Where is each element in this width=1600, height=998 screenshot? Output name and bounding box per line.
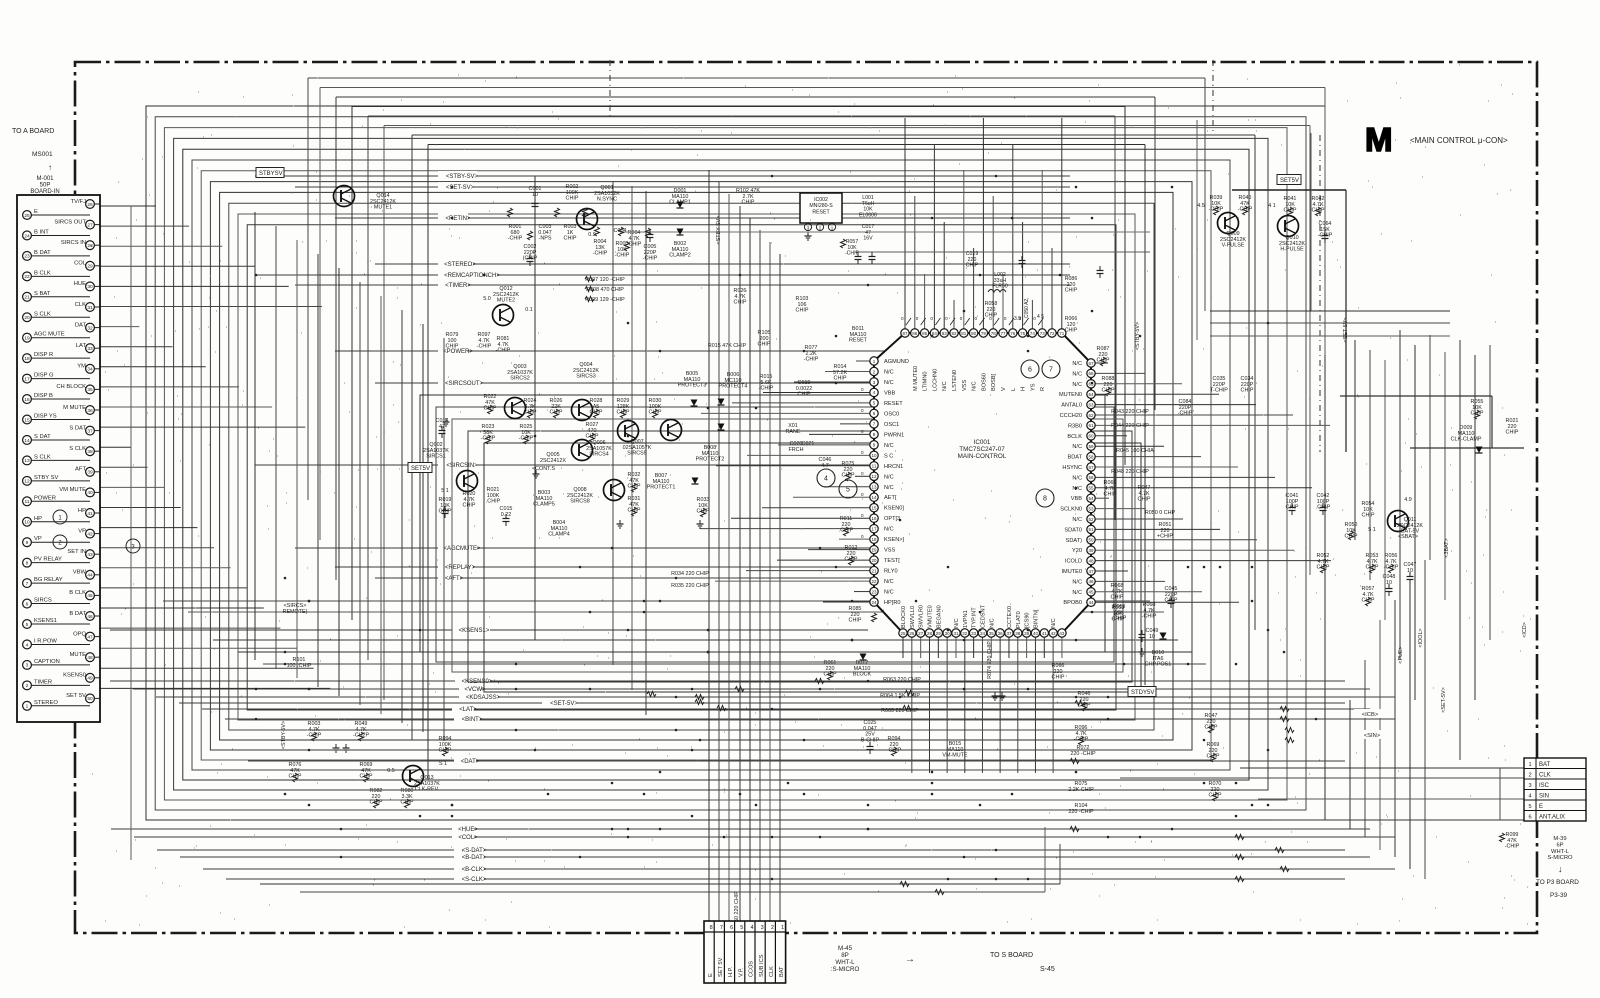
svg-text:12: 12	[871, 474, 877, 479]
svg-text:R035 220 CHIP: R035 220 CHIP	[671, 583, 709, 589]
svg-text:83: 83	[942, 331, 948, 336]
svg-text:R063 220 CHIP: R063 220 CHIP	[883, 677, 921, 683]
svg-text:1VPN1: 1VPN1	[963, 610, 969, 628]
svg-text:<CONT.S: <CONT.S	[532, 466, 555, 472]
svg-text:29: 29	[87, 264, 93, 270]
svg-text:74: 74	[1030, 331, 1036, 336]
svg-text:CLK-CLAMP: CLK-CLAMP	[1451, 437, 1482, 443]
svg-text:30: 30	[945, 631, 951, 636]
svg-text:DISP G: DISP G	[34, 373, 54, 379]
svg-text:VMUTE0: VMUTE0	[927, 605, 933, 628]
svg-text:87: 87	[902, 331, 908, 336]
svg-text:MUTE1: MUTE1	[374, 205, 392, 211]
svg-text:-CHIP: -CHIP	[804, 357, 819, 363]
svg-text:56: 56	[1088, 475, 1094, 480]
svg-text:KSEN0]: KSEN0]	[884, 506, 904, 512]
svg-text:EL0606: EL0606	[859, 212, 877, 218]
svg-text:CCTEX0: CCTEX0	[1007, 606, 1013, 628]
svg-text:R034 220 CHIP: R034 220 CHIP	[671, 571, 709, 577]
svg-text:PROTECT3: PROTECT3	[678, 383, 707, 389]
svg-text:4.7: 4.7	[821, 463, 829, 469]
svg-text:E: E	[34, 209, 38, 215]
svg-text:ANTAL0: ANTAL0	[1061, 403, 1082, 409]
svg-text:R: R	[1040, 387, 1046, 391]
svg-text:<AGCMUTE>: <AGCMUTE>	[443, 546, 481, 552]
svg-text:CHIP: CHIP	[1471, 411, 1484, 417]
svg-text:↓: ↓	[1558, 864, 1563, 874]
svg-text:CLAMP4: CLAMP4	[548, 532, 570, 538]
svg-text:N/C: N/C	[884, 590, 894, 596]
svg-text:15: 15	[24, 417, 30, 423]
svg-text:CEDSNT: CEDSNT	[980, 604, 986, 628]
svg-text:S DAT: S DAT	[69, 425, 86, 431]
svg-text:→: →	[905, 954, 915, 965]
svg-text:5 1: 5 1	[1368, 527, 1376, 533]
svg-text:N/C: N/C	[1072, 361, 1082, 367]
svg-text:-CHIP: -CHIP	[1238, 207, 1253, 213]
svg-text:L: L	[1011, 388, 1017, 391]
svg-text:VM-MUTE: VM-MUTE	[942, 753, 968, 759]
svg-text:41: 41	[87, 511, 93, 517]
svg-text:5.0: 5.0	[483, 296, 491, 302]
svg-text:<SBAT>: <SBAT>	[1398, 534, 1418, 540]
svg-text:KSENS0: KSENS0	[63, 673, 86, 679]
svg-text:M MUTE: M MUTE	[63, 405, 86, 411]
svg-text:CHIP: CHIP	[370, 800, 383, 806]
svg-text:CHIP: CHIP	[289, 774, 302, 780]
svg-text:C050 A2,: C050 A2,	[1024, 297, 1030, 318]
svg-text:<COL>: <COL>	[458, 835, 478, 841]
svg-text:<POWER>: <POWER>	[443, 349, 473, 355]
svg-text:CCCH20: CCCH20	[1060, 413, 1082, 419]
svg-text:CHIP: CHIP	[1241, 388, 1254, 394]
svg-text:BAT: BAT	[779, 966, 785, 977]
svg-text:CHIP: CHIP	[796, 308, 809, 314]
svg-text:50: 50	[87, 696, 93, 702]
svg-text:BPOB0: BPOB0	[1063, 600, 1082, 606]
svg-text:P3-39: P3-39	[1550, 892, 1567, 899]
svg-text:18: 18	[871, 537, 877, 542]
svg-text:CHIP: CHIP	[1345, 534, 1358, 540]
svg-text:E: E	[708, 973, 714, 977]
svg-text:15: 15	[871, 506, 877, 511]
svg-text:22: 22	[24, 274, 30, 280]
svg-text:<ICD>: <ICD>	[1522, 622, 1528, 638]
svg-text:6P: 6P	[1556, 842, 1563, 848]
svg-text:<STBY-SV>: <STBY-SV>	[446, 174, 479, 180]
svg-text:BOSB[: BOSB[	[991, 373, 997, 391]
svg-text:H: H	[1021, 387, 1027, 391]
svg-text:62: 62	[1088, 413, 1094, 418]
svg-text:WHT-L: WHT-L	[1551, 849, 1570, 855]
svg-text:41: 41	[1042, 631, 1048, 636]
svg-text:↑: ↑	[48, 163, 52, 172]
svg-text:KSENS1: KSENS1	[34, 618, 57, 624]
svg-text:S C: S C	[884, 453, 893, 459]
svg-text:VSS: VSS	[884, 548, 895, 554]
svg-text:77: 77	[1000, 331, 1006, 336]
svg-text:81: 81	[961, 331, 967, 336]
svg-text:SET5V: SET5V	[411, 466, 430, 472]
svg-text:1: 1	[1528, 762, 1531, 768]
svg-text:CHIP: CHIP	[484, 406, 497, 412]
svg-text:CHIP: CHIP	[1209, 793, 1222, 799]
svg-text:I R.POW: I R.POW	[34, 638, 57, 644]
svg-text:MUTE: MUTE	[70, 652, 87, 658]
svg-text:AGC MUTE: AGC MUTE	[34, 332, 65, 338]
svg-text:BOARD-IN: BOARD-IN	[30, 189, 59, 195]
svg-text:<LAT>: <LAT>	[459, 707, 477, 713]
svg-text:M: M	[1365, 121, 1393, 158]
svg-text:SIRCS4: SIRCS4	[589, 452, 608, 458]
svg-text:CHIP: CHIP	[1366, 565, 1379, 571]
svg-text:<BINT>: <BINT>	[462, 717, 483, 723]
svg-text:13: 13	[24, 458, 30, 464]
svg-text:SET 5V: SET 5V	[718, 958, 724, 977]
svg-text:7: 7	[1049, 367, 1053, 374]
svg-text:<SIRCSIN>: <SIRCSIN>	[446, 463, 478, 469]
svg-text:CH BLOCK: CH BLOCK	[56, 384, 86, 390]
svg-text:33: 33	[87, 346, 93, 352]
svg-text:AET[: AET[	[884, 495, 897, 501]
svg-text:R074 220 CHIP: R074 220 CHIP	[987, 641, 993, 679]
svg-text:B CLK: B CLK	[69, 590, 86, 596]
svg-text:FRCH: FRCH	[789, 447, 804, 453]
svg-text:26: 26	[87, 202, 93, 208]
svg-text:SIRCS3: SIRCS3	[576, 374, 595, 380]
svg-text:CHIP: CHIP	[697, 509, 710, 515]
svg-text:8: 8	[1043, 496, 1047, 503]
svg-text:C021: C021	[802, 441, 815, 447]
svg-text:-CHIP: -CHIP	[307, 733, 322, 739]
svg-text:<DAT>: <DAT>	[461, 759, 480, 765]
svg-text:SIRCS IN: SIRCS IN	[61, 240, 86, 246]
svg-text:3.9: 3.9	[1014, 316, 1021, 322]
svg-text:6: 6	[1028, 367, 1032, 374]
svg-text:LCCHN0: LCCHN0	[932, 369, 938, 391]
svg-text:-CHIP: -CHIP	[593, 251, 608, 257]
svg-text:SIRCS: SIRCS	[34, 598, 52, 604]
svg-text:75: 75	[1020, 331, 1026, 336]
svg-text:28: 28	[87, 243, 93, 249]
svg-text:TMC7SC247-07: TMC7SC247-07	[959, 446, 1005, 453]
svg-text:N/C: N/C	[1072, 486, 1082, 492]
svg-text:1: 1	[781, 925, 784, 931]
svg-text:CHIP: CHIP	[1112, 617, 1125, 623]
svg-text:0: 0	[861, 387, 864, 392]
svg-text:CHIP: CHIP	[1111, 595, 1124, 601]
svg-text:0: 0	[930, 316, 933, 321]
svg-text:CHIP: CHIP	[439, 748, 452, 754]
svg-text:0: 0	[1033, 316, 1036, 321]
svg-text:5 1: 5 1	[441, 488, 449, 494]
svg-text:5: 5	[740, 925, 743, 931]
svg-text:TO P3 BOARD: TO P3 BOARD	[1536, 879, 1579, 886]
svg-text:CHIP: CHIP	[966, 263, 979, 269]
svg-text:S DAT: S DAT	[34, 434, 51, 440]
svg-text:CLK: CLK	[769, 966, 775, 977]
svg-text:R050 0 CHP: R050 0 CHP	[1145, 510, 1176, 516]
svg-text:17: 17	[871, 526, 877, 531]
svg-text:CHIP: CHIP	[1207, 754, 1220, 760]
svg-text:M MUTE0: M MUTE0	[913, 366, 919, 391]
svg-text:B DAT: B DAT	[34, 250, 51, 256]
svg-text:<RETIN>: <RETIN>	[445, 216, 471, 222]
svg-text:<KDSAJSS>: <KDSAJSS>	[466, 695, 501, 701]
svg-text:-CHIP: -CHIP	[477, 344, 492, 350]
svg-text:ICOLD: ICOLD	[1065, 559, 1082, 565]
svg-text:58: 58	[1088, 454, 1094, 459]
svg-text:TYP.INT: TYP.INT	[972, 607, 978, 628]
svg-text:37: 37	[87, 428, 93, 434]
svg-text:0: 0	[945, 316, 948, 321]
svg-text:N/C: N/C	[1051, 618, 1057, 628]
svg-text:23: 23	[24, 254, 30, 260]
svg-text:CHIP: CHIP	[401, 800, 414, 806]
svg-text:N/C: N/C	[954, 618, 960, 628]
svg-text:BLOCK: BLOCK	[853, 672, 872, 678]
svg-text:BDAT: BDAT	[1067, 455, 1082, 461]
svg-text:DISP YS: DISP YS	[34, 414, 57, 420]
svg-text:R015 47K CHIP: R015 47K CHIP	[708, 343, 747, 349]
svg-text:-NPS: -NPS	[539, 236, 552, 242]
svg-text:MNI280-S: MNI280-S	[809, 203, 833, 209]
svg-text:67: 67	[1088, 361, 1094, 366]
svg-text:-CHIP: -CHIP	[1178, 411, 1193, 417]
svg-text:RESET: RESET	[849, 338, 868, 344]
svg-text:M-001: M-001	[36, 176, 54, 182]
svg-text:48: 48	[87, 655, 93, 661]
svg-text:20: 20	[24, 315, 30, 321]
svg-text:CHIP: CHIP	[564, 236, 577, 242]
svg-text:5: 5	[846, 487, 850, 494]
svg-text:79: 79	[981, 331, 987, 336]
svg-text:COL: COL	[74, 261, 87, 267]
svg-text:45: 45	[1088, 590, 1094, 595]
svg-text:N/C: N/C	[1072, 590, 1082, 596]
svg-text:S-45: S-45	[1040, 966, 1055, 973]
svg-text:<STEREO>: <STEREO>	[444, 262, 476, 268]
svg-text:4: 4	[26, 642, 29, 648]
svg-text:0: 0	[861, 492, 864, 497]
svg-text:<MAIN CONTROL μ-CON>: <MAIN CONTROL μ-CON>	[1410, 136, 1508, 145]
svg-text:N/C: N/C	[884, 369, 894, 375]
svg-text:220 -CHIP: 220 -CHIP	[1070, 751, 1096, 757]
svg-text:CHIP: CHIP	[1065, 328, 1078, 334]
svg-text:<TIMER>: <TIMER>	[445, 283, 471, 289]
svg-text:ANT.ALIX: ANT.ALIX	[1539, 815, 1565, 821]
svg-text:<ICB>: <ICB>	[1362, 712, 1379, 718]
svg-text:CHIP: CHIP	[1317, 565, 1330, 571]
svg-text:21: 21	[871, 568, 877, 573]
svg-text:<STBY-5V>: <STBY-5V>	[281, 721, 287, 749]
svg-text:1: 1	[26, 704, 29, 710]
svg-text:OPT[3: OPT[3	[884, 516, 900, 522]
svg-text:<STBY-SV>: <STBY-SV>	[716, 216, 722, 245]
svg-text:N/C: N/C	[1072, 475, 1082, 481]
svg-text:SIRCS8: SIRCS8	[570, 499, 589, 505]
svg-text:4 5: 4 5	[1037, 314, 1044, 320]
svg-text:22: 22	[871, 579, 877, 584]
svg-text:50: 50	[1088, 538, 1094, 543]
svg-text:CHIP: CHIP	[1065, 288, 1078, 294]
svg-text:CHIP: CHIP	[628, 508, 641, 514]
svg-text:72: 72	[1049, 331, 1055, 336]
svg-text:<B-DAT>: <B-DAT>	[462, 855, 487, 861]
svg-text:SIRCS2: SIRCS2	[510, 376, 529, 382]
svg-text:CHIP: CHIP	[1362, 513, 1375, 519]
svg-text:IMUTE0: IMUTE0	[1061, 569, 1082, 575]
svg-text:35: 35	[87, 387, 93, 393]
svg-text:39: 39	[1024, 631, 1030, 636]
svg-text:N/C: N/C	[884, 485, 894, 491]
svg-text:DISP R: DISP R	[34, 352, 53, 358]
svg-text:13: 13	[871, 485, 877, 490]
svg-text::S-MICRO: :S-MICRO	[831, 966, 860, 973]
svg-text:80: 80	[971, 331, 977, 336]
svg-text:N/C: N/C	[1072, 517, 1082, 523]
svg-text:CHIP: CHIP	[1362, 598, 1375, 604]
svg-text:17: 17	[24, 376, 30, 382]
svg-text:CHIP: CHIP	[798, 392, 811, 398]
svg-text:IC002: IC002	[814, 197, 828, 203]
svg-text:-CHIP: -CHIP	[1384, 565, 1399, 571]
svg-text:HRCN1: HRCN1	[884, 464, 903, 470]
svg-text:8P: 8P	[841, 952, 849, 959]
svg-text:E: E	[1539, 804, 1543, 810]
svg-text:BAT: BAT	[1539, 762, 1551, 768]
svg-text:BEGAN0: BEGAN0	[936, 605, 942, 628]
svg-text:-CHIP: -CHIP	[1074, 737, 1089, 743]
svg-text:S 1: S 1	[439, 761, 447, 767]
svg-text:34: 34	[87, 367, 93, 373]
svg-text:19: 19	[24, 336, 30, 342]
svg-text:Y20: Y20	[1072, 548, 1082, 554]
svg-text:V.P.: V.P.	[738, 967, 744, 977]
svg-text:0.1: 0.1	[525, 307, 533, 313]
svg-text:CHIP: CHIP	[985, 313, 998, 319]
svg-text:36: 36	[87, 408, 93, 414]
svg-text:39: 39	[87, 470, 93, 476]
svg-text:43: 43	[1059, 631, 1065, 636]
svg-text:28: 28	[927, 631, 933, 636]
svg-text:-CHIP: -CHIP	[627, 242, 642, 248]
svg-text:-CHIP: -CHIP	[481, 436, 496, 442]
svg-text:CHIP: CHIP	[524, 410, 537, 416]
svg-text:CHIP: CHIP	[360, 774, 373, 780]
svg-text:9: 9	[26, 540, 29, 546]
svg-text:24: 24	[871, 600, 877, 605]
svg-text:55: 55	[1088, 486, 1094, 491]
svg-text:36: 36	[998, 631, 1004, 636]
svg-text:25: 25	[24, 213, 30, 219]
svg-text:BG RELAY: BG RELAY	[34, 577, 63, 583]
svg-text:49: 49	[1088, 548, 1094, 553]
svg-text:<S-CLK>: <S-CLK>	[462, 877, 487, 883]
svg-text:SDAT0: SDAT0	[1064, 527, 1082, 533]
svg-text:HP[R0: HP[R0	[884, 600, 900, 606]
svg-text:6: 6	[26, 601, 29, 607]
svg-text:44: 44	[1088, 600, 1094, 605]
svg-text:CLK: CLK	[75, 302, 86, 308]
svg-text:VSS: VSS	[962, 380, 968, 391]
svg-text:B DAT: B DAT	[69, 611, 86, 617]
svg-text:N/C: N/C	[884, 474, 894, 480]
svg-text:37: 37	[1006, 631, 1012, 636]
svg-text:R065 220 CHIP: R065 220 CHIP	[881, 708, 919, 714]
svg-text:SIRCS OUT: SIRCS OUT	[54, 219, 86, 225]
svg-text:TO A BOARD: TO A BOARD	[12, 128, 54, 135]
svg-text:82: 82	[951, 331, 957, 336]
svg-text:LTIMN0: LTIMN0	[923, 372, 929, 391]
svg-text:5: 5	[26, 622, 29, 628]
svg-text:49: 49	[87, 676, 93, 682]
svg-text:SDAT): SDAT)	[1066, 538, 1083, 544]
svg-text:S CLK: S CLK	[34, 454, 51, 460]
svg-text:CHIP: CHIP	[1052, 675, 1065, 681]
svg-text:0: 0	[901, 316, 904, 321]
svg-text:R044 220 CHIP: R044 220 CHIP	[1111, 423, 1149, 429]
svg-text:VBW: VBW	[73, 570, 87, 576]
svg-text:34: 34	[980, 631, 986, 636]
svg-text:<STBY-5V>: <STBY-5V>	[1135, 322, 1141, 350]
svg-text:47: 47	[87, 634, 93, 640]
svg-text:31: 31	[87, 305, 93, 311]
svg-text:<AFT>: <AFT>	[445, 576, 464, 582]
svg-text:N/C: N/C	[884, 443, 894, 449]
svg-text:43: 43	[87, 552, 93, 558]
svg-text:POWER: POWER	[34, 495, 56, 501]
svg-text:14: 14	[871, 495, 877, 500]
svg-text:<PUE>: <PUE>	[1398, 646, 1404, 663]
svg-text:CHIP: CHIP	[824, 672, 837, 678]
svg-text:TEST[: TEST[	[884, 558, 900, 564]
svg-text:20: 20	[871, 558, 877, 563]
svg-text:DAT: DAT	[75, 322, 87, 328]
svg-text:CHIP: CHIP	[446, 344, 459, 350]
svg-text:N/C: N/C	[1072, 444, 1082, 450]
svg-text:B INT: B INT	[34, 229, 49, 235]
svg-text:2: 2	[771, 925, 774, 931]
svg-text:CLAMP2: CLAMP2	[669, 253, 691, 259]
svg-text:RESET: RESET	[884, 401, 903, 407]
svg-text:VBB: VBB	[1071, 496, 1082, 502]
svg-text:SUB ICS: SUB ICS	[759, 954, 765, 977]
svg-text:7: 7	[720, 925, 723, 931]
svg-text:BCLK: BCLK	[1067, 434, 1082, 440]
svg-text:PROTECT1: PROTECT1	[647, 485, 676, 491]
svg-text:4: 4	[824, 476, 828, 483]
svg-text:2.2K CHIP: 2.2K CHIP	[1068, 787, 1094, 793]
svg-text:CHIP: CHIP	[1104, 492, 1117, 498]
svg-text:27: 27	[918, 631, 924, 636]
svg-text:50P: 50P	[40, 183, 51, 189]
svg-text:VM MUTE: VM MUTE	[59, 487, 86, 493]
svg-text:CHIP: CHIP	[1205, 725, 1218, 731]
svg-text:60: 60	[1088, 434, 1094, 439]
svg-text:WHT-L: WHT-L	[835, 959, 855, 966]
svg-text:N/C: N/C	[1072, 579, 1082, 585]
svg-text:CHP.POS1: CHP.POS1	[1145, 662, 1172, 668]
svg-text:10: 10	[24, 520, 30, 526]
svg-text:SET IN: SET IN	[67, 549, 86, 555]
svg-text:4.5: 4.5	[1197, 203, 1205, 209]
svg-text:.CHIP: .CHIP	[839, 528, 854, 534]
svg-text:SIN: SIN	[1539, 794, 1549, 800]
svg-text:S CLK: S CLK	[34, 311, 51, 317]
svg-text:<3BAT>: <3BAT>	[1444, 538, 1450, 557]
svg-text:30: 30	[87, 284, 93, 290]
